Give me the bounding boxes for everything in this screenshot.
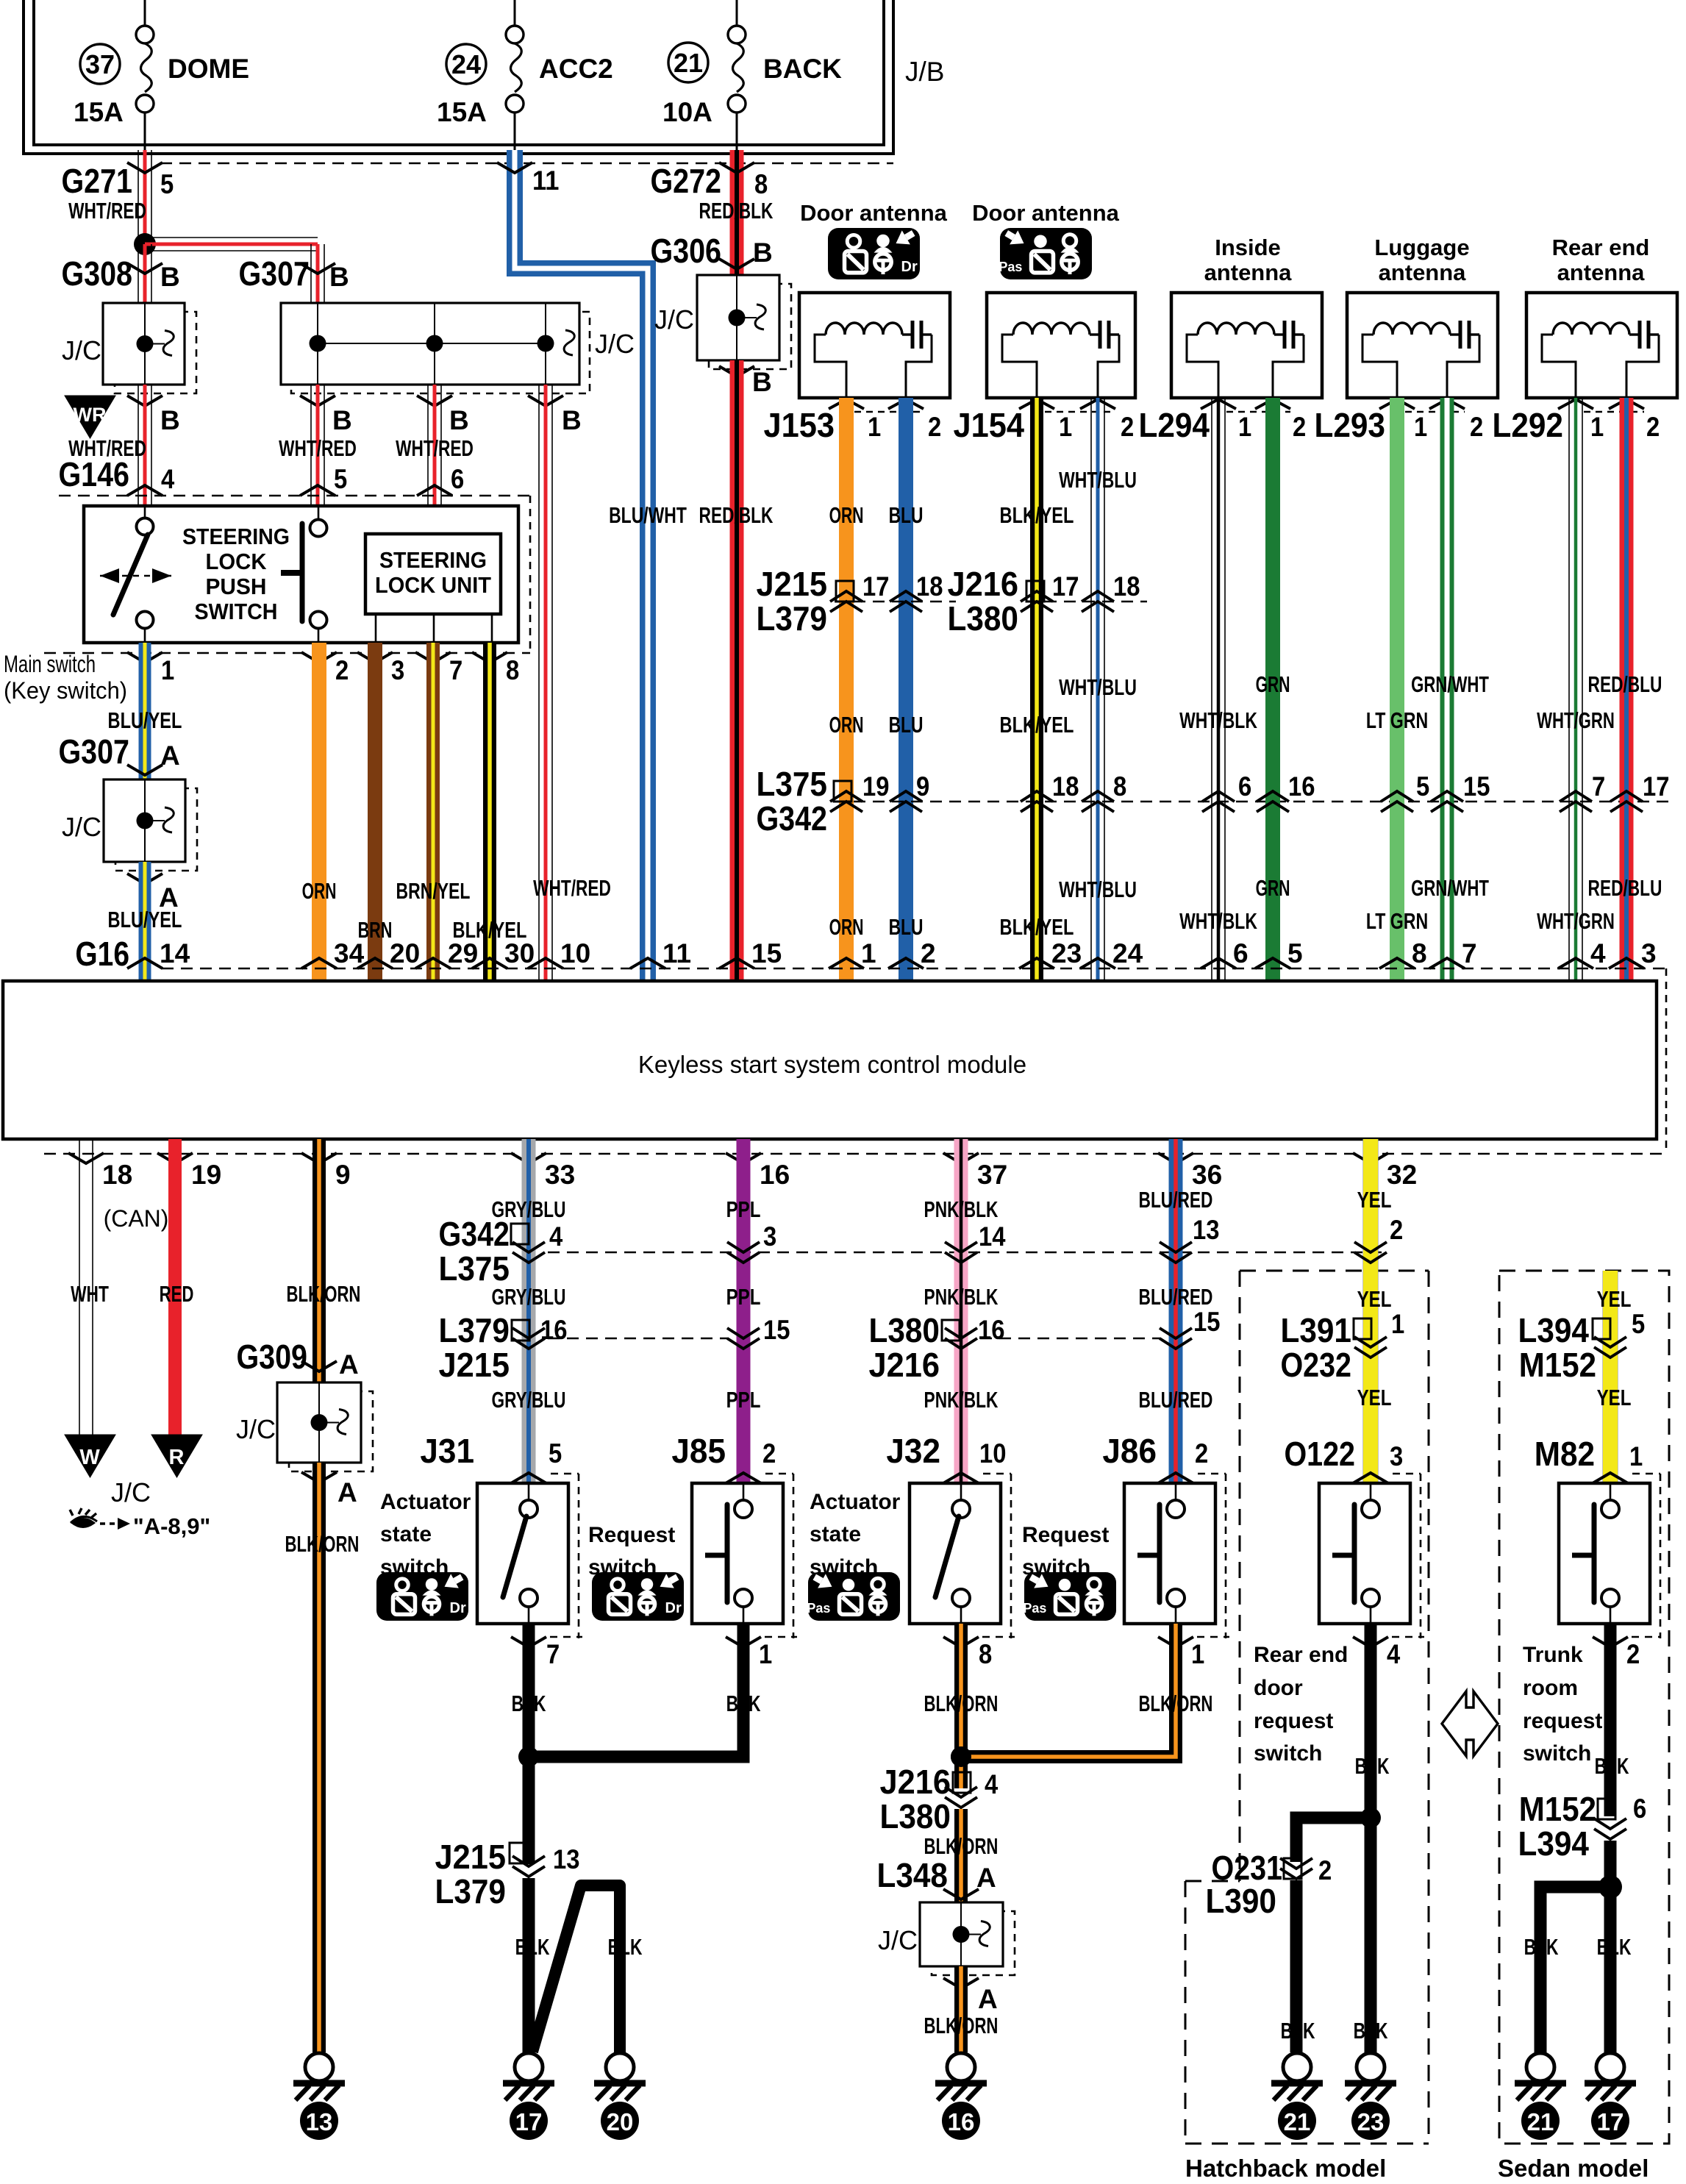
svg-text:Main switch: Main switch: [4, 651, 96, 677]
svg-text:BLK/YEL: BLK/YEL: [1000, 914, 1074, 940]
steering lock switch box: [84, 506, 518, 643]
svg-text:G342: G342: [438, 1215, 510, 1253]
connector row pins LT GRN: [1381, 771, 1490, 812]
ground 17: [503, 2053, 554, 2140]
svg-text:BLK: BLK: [726, 1691, 761, 1716]
svg-text:Keyless start system control m: Keyless start system control module: [638, 1051, 1026, 1078]
svg-text:antenna: antenna: [1204, 260, 1293, 285]
connector M152/L394 bottom: [1518, 1790, 1646, 1863]
hatchback-sedan alternative arrow: [1442, 1691, 1498, 1756]
svg-text:J216: J216: [868, 1346, 940, 1384]
svg-text:16: 16: [978, 1315, 1004, 1345]
connector J32 pin 8: [943, 1637, 1015, 1669]
svg-text:YEL: YEL: [1357, 1187, 1392, 1213]
svg-text:B: B: [160, 405, 180, 435]
svg-text:state: state: [380, 1522, 432, 1546]
connector J216/L380 row: [947, 565, 1147, 638]
connector L292 pins: [1492, 399, 1660, 444]
label PNK/BLK 2: [924, 1284, 999, 1310]
svg-text:RED: RED: [160, 1281, 194, 1307]
svg-text:GRN: GRN: [1256, 875, 1290, 901]
connector G306 pin B: [650, 232, 772, 270]
svg-text:M152: M152: [1519, 1790, 1596, 1828]
svg-text:21: 21: [674, 48, 703, 78]
svg-text:PNK/BLK: PNK/BLK: [924, 1387, 999, 1413]
connector L348 pin A: [876, 1856, 996, 1899]
wire WHT/BLU antenna: [1091, 398, 1104, 981]
label BLU/WHT: [609, 502, 687, 528]
svg-text:4: 4: [985, 1769, 999, 1799]
wire BLK/ORN J32 down: [954, 1624, 968, 1757]
connector J86 pin 1: [1158, 1637, 1229, 1669]
svg-text:BLK: BLK: [512, 1691, 546, 1716]
label BLK ground20: [608, 1934, 643, 1960]
label Actuator state switch J31: [380, 1490, 471, 1580]
label BLK/ORN above L348: [924, 1833, 999, 1859]
svg-text:J86: J86: [1102, 1432, 1157, 1470]
label Door antenna 2: [972, 200, 1120, 226]
svg-text:32: 32: [1387, 1160, 1417, 1190]
ground 17 sedan: [1585, 2053, 1636, 2140]
svg-text:room: room: [1523, 1676, 1578, 1700]
svg-text:A: A: [976, 1863, 996, 1893]
ground 16: [935, 2053, 987, 2140]
svg-text:Pas: Pas: [1023, 1601, 1046, 1616]
svg-text:WHT/RED: WHT/RED: [396, 435, 474, 461]
svg-text:18: 18: [1113, 571, 1140, 602]
label BRN/YEL col: [396, 878, 471, 904]
wire GRN/WHT antenna: [1440, 398, 1454, 981]
wire WHT/RED G307 to G146 pin6: [428, 385, 441, 506]
label BLK/ORN J86: [1139, 1691, 1213, 1716]
svg-text:15A: 15A: [437, 97, 487, 127]
connector G307 pin A (top): [58, 732, 179, 775]
svg-text:BLK/ORN: BLK/ORN: [1139, 1691, 1213, 1716]
svg-text:17: 17: [1643, 771, 1669, 802]
svg-text:door: door: [1254, 1676, 1303, 1700]
fuse 21 BACK 10A: [662, 0, 842, 150]
svg-text:switch: switch: [1254, 1741, 1322, 1766]
svg-text:1: 1: [1629, 1441, 1643, 1471]
wire RED CAN: [168, 1139, 182, 1435]
svg-text:A: A: [978, 1984, 998, 2014]
svg-text:G309: G309: [236, 1338, 307, 1376]
svg-text:4: 4: [549, 1221, 563, 1252]
svg-text:J85: J85: [671, 1432, 726, 1470]
sedan model dashed box: [1499, 1271, 1669, 2144]
labels BLK/YEL row3: [1000, 914, 1074, 940]
wire PPL module to J85: [737, 1139, 751, 1483]
connector J31 pin 5: [420, 1432, 562, 1483]
svg-text:BLK/ORN: BLK/ORN: [924, 2013, 999, 2038]
svg-text:4: 4: [161, 464, 175, 494]
wire BLK/ORN G309 to ground: [312, 1463, 326, 2052]
svg-text:5: 5: [334, 464, 347, 494]
svg-text:Actuator: Actuator: [810, 1490, 901, 1514]
wire BLK/ORN J86 to junction: [951, 1624, 1176, 1767]
svg-text:GRN/WHT: GRN/WHT: [1411, 875, 1489, 901]
icon J86 passenger door: [1023, 1572, 1116, 1621]
svg-text:30: 30: [504, 938, 535, 968]
svg-text:1: 1: [1414, 412, 1427, 442]
connector J216/L380 bottom: [879, 1763, 998, 1835]
connector row pins WHT/GRN: [1560, 771, 1669, 812]
svg-text:J31: J31: [420, 1432, 474, 1470]
connector row pins GRN: [1202, 771, 1315, 812]
label Sedan model: [1498, 2155, 1649, 2182]
wire BLK/ORN to ground 16: [954, 1966, 968, 2052]
junction connector G307-A J/C: [62, 779, 197, 871]
svg-text:8: 8: [979, 1639, 992, 1669]
svg-text:B: B: [752, 367, 772, 397]
svg-text:15: 15: [1193, 1307, 1220, 1337]
svg-text:8: 8: [506, 655, 519, 685]
svg-text:24: 24: [1112, 938, 1143, 968]
connector G342/L375 pin 13: [1160, 1215, 1219, 1263]
svg-text:Inside: Inside: [1215, 235, 1281, 260]
svg-text:YEL: YEL: [1597, 1286, 1632, 1312]
connector L294 pins: [1138, 399, 1306, 444]
wire WHT/GRN antenna: [1569, 398, 1582, 981]
svg-text:Pas: Pas: [999, 260, 1022, 274]
svg-text:GRY/BLU: GRY/BLU: [492, 1284, 566, 1310]
svg-text:6: 6: [1238, 771, 1251, 802]
svg-text:8: 8: [1412, 938, 1427, 968]
svg-text:Hatchback model: Hatchback model: [1185, 2155, 1386, 2182]
svg-text:BLU/YEL: BLU/YEL: [108, 907, 182, 932]
svg-text:PUSH: PUSH: [206, 574, 267, 599]
label PPL 2: [726, 1284, 761, 1310]
steering lock unit leads: [376, 614, 492, 643]
connector O231/L390: [1205, 1849, 1332, 1920]
svg-text:G307: G307: [58, 732, 129, 771]
svg-text:21: 21: [1284, 2108, 1311, 2135]
J/B output connector row: [160, 163, 893, 165]
svg-text:G308: G308: [61, 254, 132, 293]
svg-text:Request: Request: [588, 1523, 675, 1547]
label Actuator state switch J32: [810, 1490, 901, 1580]
svg-text:J215: J215: [756, 565, 827, 603]
labels WHT/BLK GRN 2: [1179, 875, 1290, 934]
svg-text:1: 1: [861, 938, 876, 968]
wire BRN/YEL to module: [426, 643, 440, 981]
wire BLU/YEL main switch to G307A: [139, 643, 151, 779]
svg-text:state: state: [810, 1522, 861, 1546]
svg-text:J/C: J/C: [654, 304, 694, 335]
svg-text:WR: WR: [74, 404, 107, 426]
svg-text:37: 37: [977, 1160, 1007, 1190]
svg-text:5: 5: [160, 169, 174, 199]
svg-text:J/C: J/C: [236, 1414, 276, 1444]
svg-text:34: 34: [334, 938, 365, 968]
svg-text:Door antenna: Door antenna: [972, 200, 1120, 226]
marker WR harness arrow: [65, 396, 115, 438]
svg-text:J215: J215: [438, 1346, 510, 1384]
svg-text:STEERING: STEERING: [182, 524, 290, 549]
ground 21 sedan: [1515, 2053, 1566, 2140]
main switch connector row: [4, 651, 530, 704]
connector G309 pin A: [236, 1338, 358, 1380]
svg-text:4: 4: [1387, 1639, 1401, 1669]
wire BLK branch to ground 21 sedan: [1540, 1887, 1610, 2052]
connector J85 pin 2: [671, 1432, 776, 1483]
svg-text:BLU/RED: BLU/RED: [1139, 1387, 1213, 1413]
wire BLU/WHT from fuse ACC2: [515, 150, 648, 981]
label Rear end door request switch: [1254, 1643, 1348, 1766]
svg-text:WHT/BLK: WHT/BLK: [1179, 707, 1257, 733]
svg-text:7: 7: [1592, 771, 1605, 802]
labels LT GRN GRN/WHT 2: [1366, 875, 1489, 934]
svg-text:GRY/BLU: GRY/BLU: [492, 1387, 566, 1413]
connector J215/L379 bottom: [435, 1838, 579, 1910]
door antenna J154 box: [987, 293, 1135, 398]
connector pin B below G308: [127, 396, 180, 435]
connector J86 pin 2: [1102, 1432, 1208, 1483]
connector J32 pin 10: [886, 1432, 1006, 1483]
svg-text:11: 11: [532, 165, 559, 196]
connector L375/G342 pins right-mid: [1021, 771, 1126, 812]
svg-text:GRN: GRN: [1256, 671, 1290, 697]
svg-text:Luggage: Luggage: [1374, 235, 1469, 260]
svg-text:11: 11: [662, 938, 691, 968]
svg-text:BLK: BLK: [515, 1934, 550, 1960]
svg-text:Trunk: Trunk: [1523, 1643, 1583, 1667]
svg-text:BLU/RED: BLU/RED: [1139, 1284, 1213, 1310]
svg-text:L391: L391: [1280, 1311, 1351, 1349]
wire BLK/ORN to L348: [954, 1809, 968, 1902]
label BLK/ORN J32: [924, 1691, 999, 1716]
connector L375/G342 row: [756, 765, 1669, 838]
svg-text:37: 37: [85, 49, 115, 79]
wire BLK diagonal to ground 20: [532, 1885, 620, 2052]
svg-text:J/C: J/C: [62, 335, 101, 365]
svg-text:RED/BLK: RED/BLK: [699, 198, 774, 224]
svg-text:5: 5: [1287, 938, 1303, 968]
svg-text:3: 3: [391, 655, 404, 685]
icon J31 driver door: [376, 1572, 468, 1621]
label WHT/BLU row2a: [1059, 674, 1137, 700]
ground 21 hatchback: [1271, 2053, 1323, 2140]
label BLK g21s: [1524, 1934, 1559, 1960]
connector O122 pin 4: [1353, 1637, 1424, 1669]
svg-text:L292: L292: [1492, 406, 1563, 444]
connector pin A below G309: [301, 1472, 357, 1507]
fuse 37 DOME 15A: [74, 0, 249, 150]
svg-text:L294: L294: [1138, 406, 1210, 444]
connector J85 pin 1: [726, 1637, 797, 1669]
svg-text:15: 15: [751, 938, 782, 968]
connector G342/L375 pin 14: [945, 1221, 1006, 1263]
svg-text:17: 17: [862, 571, 889, 602]
svg-text:2: 2: [1646, 412, 1660, 442]
svg-text:2: 2: [1318, 1855, 1332, 1885]
wire YEL sedan: [1603, 1271, 1618, 1483]
wire WHT/RED branch to G307: [145, 238, 324, 303]
label BLK/ORN above G309: [287, 1281, 361, 1307]
connector M82 pin 2: [1593, 1637, 1660, 1669]
svg-text:WHT/RED: WHT/RED: [533, 875, 611, 901]
svg-text:switch: switch: [1523, 1741, 1591, 1766]
svg-text:LOCK: LOCK: [206, 549, 268, 574]
svg-text:16: 16: [948, 2108, 975, 2135]
connector L380/J216 left: [868, 1311, 1160, 1384]
label WHT/RED: [68, 198, 146, 224]
wire GRN antenna: [1265, 398, 1280, 981]
connector J154 pins: [953, 399, 1134, 444]
svg-text:13: 13: [306, 2108, 333, 2135]
wire WHT/BLK antenna: [1212, 398, 1225, 981]
labels ORN BLU row2: [829, 712, 924, 738]
inside antenna L294 box: [1171, 293, 1322, 398]
svg-text:PPL: PPL: [726, 1284, 761, 1310]
keyless start system control module box: [3, 981, 1657, 1139]
svg-text:20: 20: [390, 938, 420, 968]
svg-text:3: 3: [1390, 1441, 1403, 1471]
wire BLK J31 down: [523, 1624, 535, 1757]
svg-text:9: 9: [335, 1160, 351, 1190]
labels ORN BLU row1: [829, 502, 924, 528]
wire WHT CAN: [79, 1139, 93, 1435]
svg-text:8: 8: [754, 169, 768, 199]
wire BLU antenna: [899, 398, 913, 981]
svg-text:L379: L379: [435, 1872, 506, 1910]
label WHT/BLU row0: [1059, 467, 1137, 493]
svg-text:33: 33: [545, 1160, 575, 1190]
icon J32 passenger door: [807, 1572, 900, 1621]
svg-text:WHT/BLU: WHT/BLU: [1059, 467, 1137, 493]
push switch symbol: [281, 506, 327, 643]
connector J153 pins: [763, 399, 941, 444]
label YEL 3: [1357, 1385, 1392, 1410]
svg-text:Pas: Pas: [807, 1601, 830, 1616]
label BLK g17s: [1597, 1934, 1632, 1960]
svg-text:ORN: ORN: [302, 878, 337, 904]
switch J85 request switch: [692, 1474, 793, 1638]
wire GRY/BLU module to J31: [522, 1139, 536, 1483]
svg-text:G307: G307: [238, 254, 310, 293]
svg-text:B: B: [449, 405, 469, 435]
svg-text:ACC2: ACC2: [539, 54, 613, 84]
svg-text:M82: M82: [1535, 1435, 1595, 1473]
label BLK ground17: [515, 1934, 550, 1960]
label PNK/BLK 3: [924, 1387, 999, 1413]
svg-text:BLK/ORN: BLK/ORN: [924, 1833, 999, 1859]
label BLK J85: [726, 1691, 761, 1716]
connector pin B below G307-3: [528, 396, 582, 435]
svg-text:G342: G342: [756, 799, 827, 838]
svg-text:24: 24: [451, 49, 481, 79]
label GRY/BLU 1: [492, 1196, 566, 1222]
wire BLK/ORN junction to J216: [954, 1757, 968, 1788]
label PPL 1: [726, 1196, 761, 1222]
svg-text:G146: G146: [58, 455, 129, 493]
wire BLK O122 down: [1365, 1624, 1377, 1818]
wire BLK/YEL antenna: [1030, 398, 1043, 981]
junction connector G308 J/C: [62, 303, 196, 393]
svg-text:5: 5: [1632, 1309, 1645, 1339]
label BLU/YEL 2: [108, 907, 182, 932]
connector G146 row: [58, 455, 530, 496]
label BLU/RED 2: [1139, 1284, 1213, 1310]
connector G342/L375 pin 3: [727, 1221, 776, 1263]
svg-text:1: 1: [868, 412, 881, 442]
svg-text:3: 3: [1641, 938, 1657, 968]
connector M82 pin 1: [1535, 1435, 1643, 1483]
wire BLK/ORN module to G309: [312, 1139, 326, 1382]
svg-text:O122: O122: [1284, 1435, 1355, 1473]
svg-text:WHT/GRN: WHT/GRN: [1537, 908, 1615, 934]
svg-text:WHT/RED: WHT/RED: [279, 435, 357, 461]
svg-text:G272: G272: [650, 162, 721, 200]
label RED: [160, 1281, 194, 1307]
label PNK/BLK 1: [924, 1196, 999, 1222]
svg-text:BLK: BLK: [1354, 2018, 1388, 2044]
svg-text:6: 6: [1633, 1794, 1646, 1824]
svg-text:18: 18: [102, 1160, 132, 1190]
wire BLU/YEL to G16 pin14: [139, 862, 151, 981]
svg-text:(CAN): (CAN): [104, 1205, 169, 1232]
label WHT/RED col2: [279, 435, 357, 461]
svg-text:5: 5: [549, 1438, 562, 1469]
svg-text:G306: G306: [650, 232, 721, 270]
svg-text:Rear end: Rear end: [1552, 235, 1650, 260]
svg-text:WHT/GRN: WHT/GRN: [1537, 707, 1615, 733]
svg-text:BLK/ORN: BLK/ORN: [285, 1531, 360, 1557]
wire WHT/RED G308 to G146: [138, 385, 151, 506]
svg-text:YEL: YEL: [1357, 1385, 1392, 1410]
label BLK J31: [512, 1691, 546, 1716]
svg-text:2: 2: [1293, 412, 1306, 442]
svg-text:15A: 15A: [74, 97, 124, 127]
svg-text:10: 10: [560, 938, 590, 968]
svg-text:BLK: BLK: [1524, 1934, 1559, 1960]
ground 20: [594, 2053, 646, 2140]
svg-text:BLU/WHT: BLU/WHT: [609, 502, 687, 528]
svg-text:6: 6: [451, 464, 464, 494]
svg-text:L394: L394: [1518, 1311, 1589, 1349]
node BLK junction hatch: [1360, 1807, 1381, 1828]
dashed side connector link: [1665, 968, 1668, 1154]
label BLK/YEL col: [453, 917, 527, 943]
svg-text:RED/BLK: RED/BLK: [699, 502, 774, 528]
label BLK/ORN ground16: [924, 2013, 999, 2038]
svg-text:1: 1: [1059, 412, 1072, 442]
labels WHT/GRN RED/BLU 2: [1537, 875, 1662, 934]
dashed box right side: [529, 496, 532, 653]
connector J215/L379 row: [756, 565, 956, 638]
label BLK O122: [1355, 1753, 1390, 1779]
svg-text:13: 13: [553, 1844, 579, 1874]
label Hatchback model: [1185, 2155, 1386, 2182]
steering lock unit box: [365, 534, 501, 614]
svg-text:RED/BLU: RED/BLU: [1588, 671, 1662, 697]
svg-text:antenna: antenna: [1557, 260, 1646, 285]
svg-text:LT GRN: LT GRN: [1366, 908, 1428, 934]
label BLK/ORN below G309: [285, 1531, 360, 1557]
svg-text:A: A: [160, 741, 180, 771]
icon J85 driver door: [592, 1572, 684, 1621]
svg-text:8: 8: [1113, 771, 1126, 802]
label YEL 2: [1357, 1286, 1392, 1312]
label RED/BLK: [699, 198, 774, 224]
svg-text:29: 29: [448, 938, 478, 968]
svg-text:7: 7: [546, 1639, 560, 1669]
svg-text:L379: L379: [438, 1311, 510, 1349]
svg-text:18: 18: [1052, 771, 1079, 802]
labels LT GRN GRN/WHT: [1366, 671, 1489, 733]
svg-text:1: 1: [1391, 1309, 1404, 1339]
svg-text:L380: L380: [947, 599, 1018, 638]
